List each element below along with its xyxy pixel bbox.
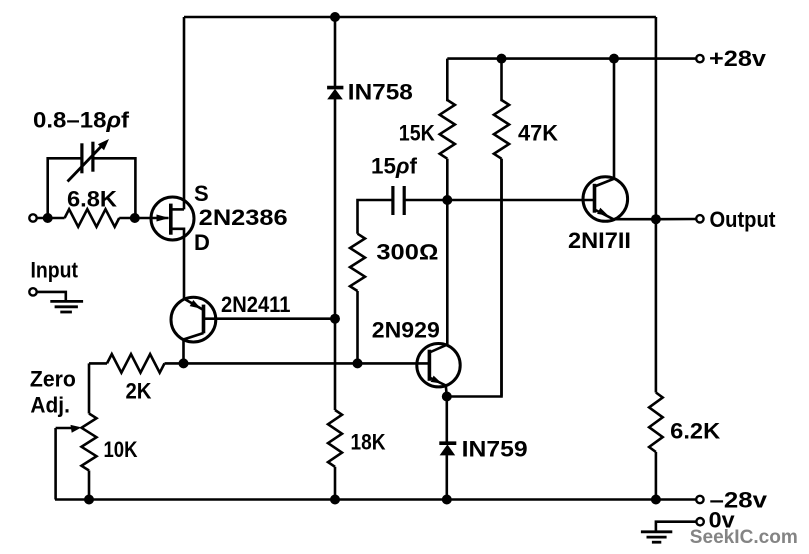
- wire 6.8K to JFET gate: [119, 217, 168, 220]
- diode D2 1N759 (zener): [439, 441, 456, 445]
- svg-text:15ρf: 15ρf: [371, 154, 418, 179]
- capacitor 0.8-18pf plates: [80, 143, 83, 173]
- transistor Q1 channel bar: [169, 204, 173, 235]
- wire 15K bottom: [446, 159, 449, 200]
- svg-text:IN759: IN759: [462, 437, 528, 462]
- svg-text:SeekIC.com: SeekIC.com: [690, 527, 798, 548]
- node 1N759 bottom: [442, 495, 452, 505]
- wire top rail (output node): [184, 16, 656, 19]
- wire base row to 2N929: [184, 362, 430, 365]
- capacitor 15pf left wire: [358, 200, 393, 234]
- wire output: [656, 218, 696, 221]
- wire wiper down to rail: [54, 428, 57, 500]
- svg-text:2K: 2K: [126, 378, 152, 403]
- -28v terminal: [696, 496, 703, 503]
- svg-text:6.2K: 6.2K: [670, 418, 720, 443]
- node 2N2411 base junction: [330, 314, 340, 324]
- svg-text:Output: Output: [710, 207, 777, 232]
- potentiometer 10K: [82, 414, 97, 471]
- svg-text:2N2411: 2N2411: [221, 292, 291, 317]
- ground symbol (input): [50, 300, 83, 303]
- svg-text:10K: 10K: [104, 437, 138, 462]
- svg-text:IN758: IN758: [348, 80, 413, 105]
- wire base junction to 18K: [334, 319, 337, 410]
- transistor Q2 emitter lead (from drain): [185, 299, 204, 310]
- svg-text:S: S: [194, 181, 209, 206]
- svg-text:6.8K: 6.8K: [67, 187, 117, 212]
- svg-text:Input: Input: [31, 258, 79, 283]
- capacitor 0.8-18pf variable, left riser wire: [48, 158, 82, 218]
- wire 300ohm to base row: [356, 291, 359, 363]
- wire emitter junction to 47K column: [447, 159, 502, 397]
- resistor 300 ohm: [350, 234, 365, 291]
- wire 2K left down to 10K: [88, 363, 91, 413]
- transistor Q3 collector lead: [429, 200, 447, 353]
- svg-text:Adj.: Adj.: [30, 392, 70, 417]
- transistor Q1 2N2386 JFET body: [151, 197, 194, 240]
- resistor 6.2K: [649, 393, 663, 453]
- transistor Q4 base bar: [593, 184, 597, 213]
- svg-text:2N929: 2N929: [372, 318, 440, 343]
- +28v terminal: [696, 55, 703, 62]
- node top rail diode column: [330, 12, 340, 22]
- transistor Q3 base bar: [428, 350, 432, 381]
- wire right rail upper (top rail to output): [655, 17, 658, 219]
- svg-text:300Ω: 300Ω: [376, 239, 438, 264]
- wire diode to rail: [445, 455, 448, 499]
- resistor 15K: [446, 59, 449, 102]
- svg-text:18K: 18K: [351, 429, 386, 454]
- wire right rail middle (output to 6.2K): [655, 219, 658, 392]
- 0v terminal: [696, 518, 703, 525]
- node 18K bottom: [330, 495, 340, 505]
- wire bottom -28v rail: [55, 498, 696, 501]
- transistor Q3 emitter lead with arrow: [429, 378, 446, 397]
- input signal terminal: [29, 214, 36, 221]
- transistor Q2 2N2411 body: [171, 297, 216, 342]
- resistor 6.8K: [65, 209, 120, 227]
- capacitor 0.8-18pf right wire: [93, 158, 135, 218]
- node input left junction: [43, 213, 53, 223]
- node 15K/15pf/base junction: [442, 195, 452, 205]
- wire 0v to ground: [656, 522, 696, 532]
- transistor Q2 base wire to diode column: [204, 317, 336, 320]
- svg-text:Zero: Zero: [30, 366, 76, 391]
- wire 2K to collector junction: [165, 362, 184, 365]
- ground symbol (0v): [641, 530, 672, 533]
- node 6.2K bottom: [651, 495, 661, 505]
- potentiometer 10K wiper arrow: [56, 427, 72, 429]
- transistor Q2 base bar: [202, 305, 206, 334]
- svg-text:47K: 47K: [518, 121, 558, 146]
- capacitor 0.8-18pf variable arrow: [68, 143, 105, 182]
- node output junction: [651, 214, 661, 224]
- capacitor 15pf plates: [391, 186, 394, 215]
- svg-text:15K: 15K: [399, 121, 435, 146]
- wire diode to base junction: [334, 99, 337, 319]
- diode D1 1N758 (zener): [327, 86, 343, 90]
- svg-text:2N2386: 2N2386: [199, 205, 288, 230]
- wire zero-adj horizontal (2K row): [89, 362, 107, 365]
- wire emitter junction to diode: [445, 397, 448, 444]
- transistor Q4 2N1711 body: [583, 177, 628, 222]
- node 10K bottom: [84, 495, 94, 505]
- transistor Q3 2N929 body: [417, 344, 460, 387]
- transistor Q4 collector lead: [595, 59, 615, 187]
- node 2N929 emitter junction: [442, 392, 452, 402]
- svg-text:D: D: [194, 230, 210, 255]
- wire input ground: [37, 292, 66, 302]
- wire +28v feed line: [447, 57, 695, 60]
- svg-text:2NI7II: 2NI7II: [568, 228, 631, 253]
- input ground terminal: [29, 288, 36, 295]
- wire right rail lower (6.2K to -28v rail): [655, 452, 658, 500]
- node 300ohm bottom junction: [353, 358, 363, 368]
- transistor Q2 collector lead: [184, 333, 204, 363]
- resistor 2K: [107, 354, 165, 373]
- node 6.8K right junction: [130, 213, 140, 223]
- wire 10K bottom to rail: [88, 471, 91, 500]
- capacitor 15pf right wire: [404, 199, 447, 202]
- node 2N1711 collector top: [609, 54, 619, 64]
- wire 18K to rail: [334, 467, 337, 500]
- transistor Q1 source lead S: [171, 208, 184, 211]
- transistor Q4 emitter lead with arrow: [595, 210, 656, 220]
- svg-text:+28v: +28v: [709, 46, 767, 71]
- node 2K / 2N2411 collector / 2N929 base junction: [179, 358, 189, 368]
- wire input to 6.8K: [37, 217, 65, 220]
- transistor Q1 drain lead D: [171, 229, 184, 299]
- node 47K top: [497, 54, 507, 64]
- resistor 47K: [500, 59, 503, 102]
- wire diode column upper: [334, 17, 337, 86]
- transistor Q1 gate arrow: [157, 215, 170, 222]
- output terminal: [696, 215, 703, 222]
- resistor 18K: [328, 410, 342, 467]
- wire 47K bottom long: [500, 159, 503, 397]
- wire JFET source riser: [183, 17, 186, 209]
- svg-text:0.8–18ρf: 0.8–18ρf: [33, 108, 130, 133]
- wire 15pf junction to 2N1711 base: [447, 199, 594, 202]
